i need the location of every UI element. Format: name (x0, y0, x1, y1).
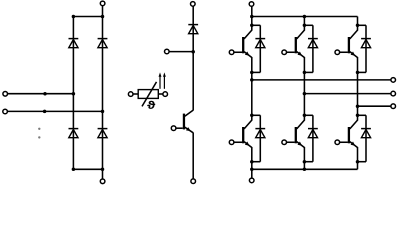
wire phase U output line (252, 79, 391, 81)
wire chopper branch to terminal (169, 51, 193, 53)
thermistor temperature arrows (159, 72, 166, 88)
junction cell W bottom join (356, 160, 360, 164)
wire cell U emitter join (252, 71, 260, 73)
wire cell W emitter join (358, 71, 367, 73)
wire phase V vertical (303, 57, 305, 115)
node Q6 gate terminal (335, 140, 348, 145)
junction chopper branch (191, 50, 195, 54)
wire cell V top drop (303, 17, 305, 31)
wire cell U top diode branch (252, 25, 260, 72)
diode D4 (bridge lower-right) (98, 129, 108, 138)
wire cell W bottom emitter join (358, 161, 367, 163)
wire bridge top terminal stub (102, 6, 104, 17)
junction bridge top-right (101, 15, 105, 19)
wire cell U bottom diode branch (252, 115, 260, 161)
junction bridge top-left (72, 15, 76, 19)
wire AC input L1 (7, 93, 73, 95)
junction DC+ rail cell1 (250, 15, 254, 19)
junction cell U bottom collector node (250, 114, 254, 118)
transistor Q1 (phase U high-side IGBT) (242, 30, 252, 57)
junction cell V top join (303, 71, 307, 75)
node chopper bottom terminal (191, 179, 196, 184)
node AC input L1 terminal (3, 92, 8, 97)
junction on AC line L1 at tap (43, 92, 47, 96)
junction phase W tap (356, 104, 360, 108)
transistor Q6 (phase W low-side IGBT) (348, 120, 358, 147)
junction cell W bottom collector node (356, 114, 360, 118)
wire chopper mid vertical (192, 34, 194, 111)
junction cell V bottom collector node (303, 114, 307, 118)
wire bridge left leg (72, 17, 74, 170)
wire inverter DC- stub (251, 169, 253, 178)
node Q2 gate terminal (282, 50, 295, 55)
wire bridge bottom rail (73, 168, 104, 170)
node Q4 gate terminal (229, 140, 242, 145)
transistor Q3 (phase W high-side IGBT) (348, 30, 358, 57)
wire bridge top rail (73, 16, 104, 18)
diode D2 (bridge upper-right) (98, 39, 108, 48)
wire cell U emitter to DC- rail (251, 147, 253, 169)
node phase U output terminal (391, 78, 396, 83)
junction cell W top join (356, 71, 360, 75)
junction on AC line L2 at tap (43, 110, 47, 114)
wire cell W top diode branch (358, 25, 367, 72)
diode D10 (Q5 antiparallel) (308, 129, 318, 138)
diode D3 (bridge lower-left) (69, 129, 79, 138)
node chopper gate terminal (171, 126, 183, 131)
node Q1 gate terminal (229, 50, 242, 55)
diode D6 (Q1 antiparallel) (255, 39, 265, 48)
junction DC- rail cell1 (250, 168, 254, 172)
junction AC L2 to right leg (101, 110, 105, 114)
junction cell V bottom join (303, 160, 307, 164)
node AC input L2 terminal (3, 109, 8, 114)
wire cell W emitter to DC- rail (357, 147, 359, 169)
thermistor theta label (148, 101, 155, 109)
junction DC+ rail cell2 (303, 15, 307, 19)
junction cell V top collector node (303, 24, 307, 28)
node phase V output terminal (391, 91, 396, 96)
wire phase W vertical (357, 57, 359, 115)
wire phase V output line (304, 93, 391, 95)
wire cell V bottom emitter join (304, 161, 313, 163)
junction cell U top join (250, 71, 254, 75)
wire cell U bottom drop (251, 115, 253, 120)
wire phase W output line (358, 105, 392, 107)
node inverter DC+ terminal (249, 2, 254, 7)
wire inverter DC+ stub (251, 6, 253, 16)
wire bridge bottom terminal stub (102, 169, 104, 179)
node chopper branch terminal (165, 49, 170, 54)
junction bridge bottom-right (101, 168, 105, 172)
node inverter DC- terminal (249, 178, 254, 183)
wire cell V bottom diode branch (304, 115, 313, 161)
wire AC input L2 (7, 110, 102, 112)
wire cell W top drop (357, 17, 359, 31)
wire chopper emitter down (192, 133, 194, 180)
junction cell U bottom join (250, 160, 254, 164)
transistor Q4 (phase U low-side IGBT) (242, 120, 252, 147)
transistor Q5 (phase V low-side IGBT) (295, 120, 305, 147)
node DC+ terminal (bridge top) (100, 1, 105, 6)
junction bridge bottom-left (72, 168, 76, 172)
node DC- terminal (bridge bottom) (100, 179, 105, 184)
junction phase U tap (250, 78, 254, 82)
wire cell U bottom emitter join (252, 161, 260, 163)
diode D7 (Q2 antiparallel) (308, 39, 318, 48)
wire cell U top drop (251, 17, 253, 31)
diode D11 (Q6 antiparallel) (361, 129, 371, 138)
wire chopper top stub (192, 6, 194, 34)
diode D1 (bridge upper-left) (69, 39, 79, 48)
junction cell U top collector node (250, 24, 254, 28)
node chopper DC+ terminal (top) (191, 2, 196, 7)
wire phase U vertical (251, 57, 253, 115)
ellipsis continuation dots (more AC phases) (38, 128, 40, 139)
junction DC- rail cell2 (303, 168, 307, 172)
node phase W output terminal (391, 104, 396, 109)
wire cell W bottom diode branch (358, 115, 367, 161)
junction AC L1 to left leg (72, 92, 76, 96)
diode D9 (Q4 antiparallel) (255, 129, 265, 138)
wire cell W bottom drop (357, 115, 359, 120)
node Q3 gate terminal (335, 50, 348, 55)
diode D8 (Q3 antiparallel) (361, 39, 371, 48)
thermistor R1 (NTC temperature sensor) (128, 82, 167, 107)
transistor Q2 (phase V high-side IGBT) (295, 30, 305, 57)
transistor Q7 (brake chopper IGBT) (183, 110, 193, 133)
wire inverter top rail (252, 16, 358, 18)
wire cell V emitter join (304, 71, 313, 73)
wire cell V top diode branch (304, 25, 313, 72)
wire cell V emitter to DC- rail (303, 147, 305, 169)
diode D5 (chopper freewheel) (188, 25, 198, 34)
wire cell V bottom drop (303, 115, 305, 120)
wire bridge right leg (102, 17, 104, 170)
node Q5 gate terminal (282, 140, 295, 145)
junction cell W top collector node (356, 24, 360, 28)
wire inverter DC- rail (252, 168, 358, 170)
junction phase V tap (303, 92, 307, 96)
